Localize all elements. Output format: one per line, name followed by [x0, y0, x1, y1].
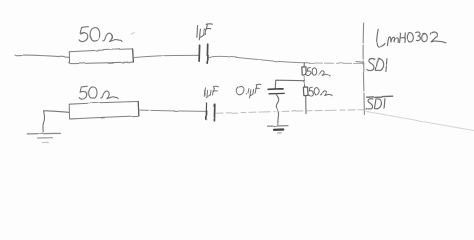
wire: junction to C3	[275, 80, 305, 88]
stray pencil dash near R1 label	[131, 33, 135, 35]
capacitor C2 1uF series bottom	[206, 104, 215, 121]
wire: R4 to bottom rail	[305, 96, 307, 114]
wire: C2 to SDI-bar pin (faint)	[216, 110, 364, 114]
wire: R1 to C1	[134, 55, 199, 57]
capacitor C1 1uF series top	[199, 44, 208, 63]
wire: C3 to ground squiggle	[276, 94, 279, 125]
resistor R1 50ohm series top	[69, 49, 133, 64]
label R2 value 50Ω	[79, 86, 118, 99]
stray pencil line bottom-right	[366, 112, 474, 131]
wire: R2 to C2	[139, 110, 206, 111]
wire: bottom rail stub through IC line	[364, 109, 368, 111]
label C3 value 0.1uF	[237, 84, 261, 98]
ground: under C3	[268, 126, 289, 133]
node: termination tap	[303, 63, 305, 67]
resistor R4 50ohm termination lower	[303, 87, 308, 96]
pin label SDI-bar with overline	[366, 96, 392, 109]
resistor R2 50ohm series bottom	[69, 102, 139, 120]
label U1 part number LMH0302	[377, 29, 446, 46]
label C2 value 1uF	[205, 86, 219, 98]
wire: R3 to R4 junction	[303, 75, 305, 87]
resistor R3 50ohm termination upper	[302, 67, 306, 75]
label C1 value 1uF	[197, 24, 213, 40]
wire: top input lead	[15, 55, 69, 57]
label R3 value 50Ω	[307, 68, 330, 77]
ground: bottom-left	[27, 133, 60, 142]
IC U1 boundary LMH0302	[363, 23, 364, 115]
label R4 value 50Ω	[309, 87, 332, 95]
label R1 value 50Ω	[79, 27, 122, 42]
pin label SDI	[367, 58, 387, 71]
capacitor C3 0.1uF bypass	[268, 89, 284, 94]
pin tick SDI	[356, 61, 364, 64]
wire: bottom-left corner and drop	[43, 111, 69, 132]
wire: C1 to SDI pin	[208, 56, 309, 62]
